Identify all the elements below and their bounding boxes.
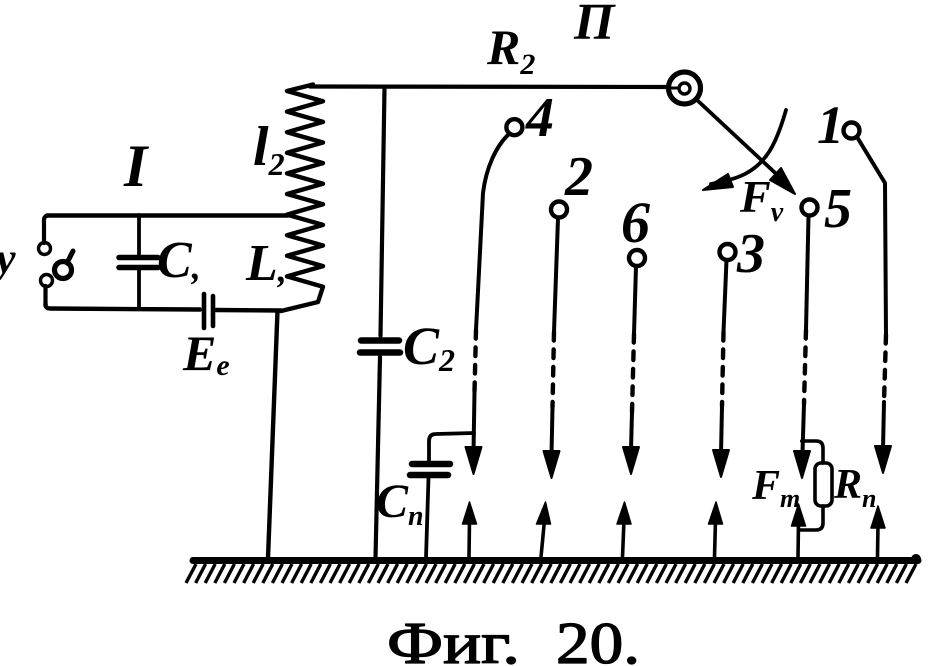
wire top of input circuit [47, 213, 288, 217]
wire bottom of input circuit (left of Ee) [46, 304, 201, 310]
switch II rotor [669, 72, 701, 104]
dashed line 2 [553, 332, 555, 407]
up arrow 2 [541, 520, 545, 557]
switch arm [697, 100, 786, 183]
contact 2 [551, 202, 567, 218]
wire from contact 1 [857, 137, 886, 335]
svg-text:П: П [573, 0, 616, 51]
up arrow 3 [623, 520, 625, 557]
svg-text:l2: l2 [253, 116, 285, 182]
arrow line 3 [721, 406, 722, 454]
up arrow 1 [467, 520, 471, 557]
contact 1 [844, 123, 860, 139]
dashed line 3 [722, 332, 724, 406]
svg-text:I: I [123, 133, 150, 199]
wire from contact 4 [476, 134, 509, 330]
key Y terminal lower [41, 275, 53, 287]
svg-text:Фиг.: Фиг. [387, 610, 520, 666]
resistor Rn body [815, 463, 832, 506]
svg-text:Rn: Rn [833, 462, 876, 513]
arc arrowhead [703, 174, 733, 190]
svg-text:L,: L, [245, 235, 287, 292]
coil L1 L2 [281, 85, 323, 312]
wire from contact 5 [806, 216, 809, 330]
wire from contact 6 [634, 266, 636, 334]
contact 3 [720, 244, 736, 260]
wire bottom of input circuit (right of Ee) [216, 308, 281, 313]
wire from contact 3 [724, 260, 727, 332]
dashed line 5 [804, 330, 806, 404]
svg-text:6: 6 [621, 190, 650, 255]
svg-text:5: 5 [824, 178, 852, 240]
key Y lever [55, 262, 72, 279]
capacitor Cn plates [412, 461, 450, 468]
contact 5 [802, 200, 818, 216]
svg-text:20.: 20. [556, 610, 640, 666]
ground hatching [186, 564, 916, 583]
arc arrow Fv [711, 110, 786, 184]
capacitor C1 lead bottom [137, 270, 141, 309]
svg-text:1: 1 [817, 95, 844, 155]
dashed line 6 [632, 334, 634, 412]
dashed line 1 [884, 335, 886, 402]
wire top-left vertical [44, 216, 49, 244]
up arrow 5 [796, 522, 800, 557]
svg-text:4: 4 [525, 87, 554, 149]
svg-text:2: 2 [564, 146, 593, 208]
arrow line 6 [631, 412, 632, 450]
arrow line 4 [474, 392, 475, 452]
svg-text:C2: C2 [403, 316, 455, 378]
svg-text:Ee: Ee [182, 325, 230, 382]
resistor Rn bottom elbow [799, 506, 823, 530]
capacitor C2 plates [361, 337, 399, 344]
wire antenna top horizontal [310, 84, 667, 89]
contact 4 [506, 119, 522, 135]
wire C2 branch vertical [381, 88, 385, 336]
svg-text:C,: C, [157, 232, 201, 289]
arrow line 1 [883, 402, 884, 449]
wire from node to ground [268, 311, 278, 558]
resistor Rn top elbow [802, 441, 823, 463]
up arrow 4 [715, 520, 716, 557]
switch arm arrowhead [770, 168, 795, 194]
svg-text:3: 3 [736, 223, 765, 285]
svg-text:Fm: Fm [751, 463, 800, 513]
svg-text:R2: R2 [486, 19, 535, 81]
wire from contact 2 [554, 218, 558, 332]
arrow line 5 [803, 404, 805, 453]
ground end blob [911, 554, 921, 564]
dashed line 4 [475, 330, 477, 392]
ground line [193, 557, 918, 564]
wire bottom-left vertical [43, 286, 47, 306]
svg-text:y: y [0, 234, 16, 283]
capacitor Cn lead and elbow to antenna 4 line [429, 433, 474, 461]
capacitor C1 lead top [137, 215, 141, 254]
capacitor Cn lead bottom [426, 478, 429, 558]
contact 6 [629, 250, 645, 266]
up arrow 6 [876, 524, 880, 557]
capacitor C1 plates [119, 255, 158, 261]
capacitor Ee plates [202, 294, 207, 328]
svg-text:Cn: Cn [376, 475, 424, 532]
arrow line 2 [552, 407, 553, 455]
key Y terminal upper [39, 243, 51, 255]
